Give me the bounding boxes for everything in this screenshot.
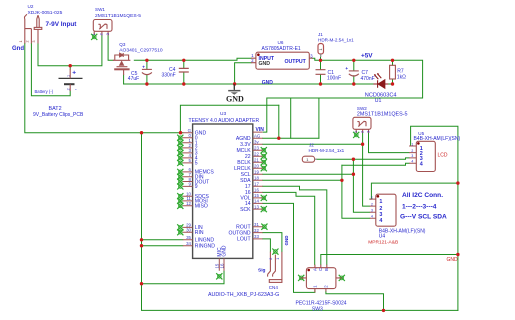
- wire AGND pin line: [263, 137, 319, 139]
- svg-text:2: 2: [269, 258, 273, 260]
- svg-text:16: 16: [219, 263, 224, 268]
- svg-text:9: 9: [195, 184, 198, 190]
- svg-text:12: 12: [186, 201, 191, 206]
- wire ground rail: [124, 83, 374, 85]
- svg-text:+: +: [345, 66, 348, 71]
- wire GND to RINGND pin 34: [142, 245, 183, 247]
- svg-text:15: 15: [254, 193, 259, 198]
- rotary encoder SW3 PEC11R: [301, 265, 342, 293]
- wire SW3 pin2 to GND rail: [326, 292, 384, 311]
- wire 3.3V to SW2 and U4 pin2: [263, 133, 370, 206]
- wire SDA to U5 pin4: [342, 163, 409, 165]
- wire U6 GND pin to ground rail: [235, 63, 251, 84]
- svg-text:1: 1: [66, 75, 70, 77]
- svg-text:1: 1: [92, 33, 96, 35]
- svg-text:GND: GND: [284, 235, 289, 246]
- capacitor C4 330nF: [179, 68, 189, 72]
- wire C1 connections: [320, 60, 322, 84]
- svg-text:7-9V Input: 7-9V Input: [46, 21, 78, 28]
- wire battery negative to jack: [31, 44, 70, 96]
- svg-text:20: 20: [254, 164, 259, 169]
- svg-text:1kΩ: 1kΩ: [397, 74, 406, 80]
- svg-text:13: 13: [254, 204, 259, 209]
- switch SW1 2MS1T1B1M1QES-5: [93, 20, 112, 36]
- svg-text:34: 34: [186, 241, 191, 246]
- svg-text:330nF: 330nF: [162, 72, 176, 78]
- wire OUTGND to CN4 sleeve: [263, 233, 282, 252]
- svg-text:GND: GND: [262, 80, 274, 86]
- svg-text:OUTPUT: OUTPUT: [285, 59, 307, 65]
- wire AGND right loop leg: [318, 98, 320, 138]
- svg-text:35: 35: [186, 235, 191, 240]
- svg-text:33: 33: [254, 234, 259, 239]
- wire U4 pin1 to GND: [370, 183, 459, 199]
- svg-text:3: 3: [371, 209, 373, 213]
- wire Q3 gate to ground: [123, 75, 125, 84]
- wire GND to LINGND pin 35: [142, 239, 183, 241]
- svg-text:2: 2: [379, 206, 382, 212]
- wire U3 pin14 to SW3 switch pin: [263, 203, 315, 292]
- svg-text:4: 4: [420, 162, 423, 168]
- connector U2 barrel jack XDJK-0051-025: [24, 14, 41, 43]
- svg-text:47uF: 47uF: [128, 76, 139, 82]
- svg-text:U3: U3: [220, 111, 226, 117]
- svg-text:3: 3: [379, 212, 382, 218]
- svg-text:1: 1: [276, 258, 280, 260]
- svg-text:B4B-XH-AM(LF)(SN): B4B-XH-AM(LF)(SN): [379, 229, 426, 235]
- svg-text:1: 1: [411, 142, 413, 146]
- svg-text:18: 18: [254, 176, 259, 181]
- wire U5 pin1 to GND right side: [411, 126, 458, 310]
- svg-text:LOUT: LOUT: [237, 237, 251, 243]
- wire GND from U3 bottom GND pin: [142, 271, 225, 284]
- svg-text:4: 4: [411, 160, 413, 164]
- wire U3 pin16 to SW3 A: [263, 192, 315, 264]
- svg-text:GND: GND: [259, 61, 271, 67]
- svg-text:OUTGND: OUTGND: [229, 230, 251, 236]
- switch SW2 2MS1T1B1M1QES-5: [353, 117, 371, 133]
- svg-text:2: 2: [100, 33, 104, 35]
- svg-text:31: 31: [254, 222, 259, 227]
- svg-text:GND: GND: [222, 245, 228, 257]
- svg-text:B: B: [324, 268, 329, 271]
- svg-text:SW1: SW1: [95, 7, 105, 12]
- svg-text:100nF: 100nF: [327, 75, 341, 81]
- wire GND from jack to U3 GND pin: [25, 44, 183, 133]
- wire SW3 C to GND: [321, 255, 458, 265]
- svg-text:1: 1: [379, 199, 382, 205]
- wire +5V rail to U3 VIN: [263, 58, 422, 132]
- svg-text:SCL: SCL: [241, 172, 251, 178]
- svg-text:Q3: Q3: [119, 42, 126, 47]
- svg-text:3: 3: [106, 33, 110, 35]
- transistor Q3 AO3401 PMOS: [113, 53, 130, 75]
- svg-text:LCD: LCD: [438, 153, 448, 159]
- wire LED cathode to R7: [385, 60, 393, 84]
- wire GND symbol stub: [233, 84, 235, 89]
- svg-text:RIN: RIN: [195, 230, 204, 236]
- connector U4 B4B-XH MPR121: [376, 194, 396, 226]
- wire AGND upper branch: [180, 105, 278, 132]
- svg-text:MISO: MISO: [195, 204, 208, 210]
- svg-text:Battery (-): Battery (-): [35, 89, 54, 94]
- wire loop leg at x290: [290, 98, 292, 138]
- wire SCL from U3 pin19 to U4 pin3: [263, 159, 370, 212]
- wire SW1 to Q3 source: [108, 36, 113, 61]
- svg-text:1: 1: [371, 195, 373, 199]
- wire U3 pin17 to SW3 B: [263, 186, 327, 264]
- U3 left pin numbers: [186, 128, 191, 246]
- LED U1 NCD0603C4: [373, 73, 388, 88]
- svg-text:G---V SCL SDA: G---V SCL SDA: [400, 214, 447, 221]
- capacitor C5 47uF electrolytic: [142, 69, 152, 74]
- wire battery positive stub: [69, 66, 71, 69]
- svg-text:9V_Battery Clips_PCB: 9V_Battery Clips_PCB: [33, 112, 84, 118]
- U4 pin numbers: [379, 199, 382, 224]
- svg-text:2: 2: [411, 149, 413, 153]
- svg-text:All I2C Conn.: All I2C Conn.: [402, 192, 443, 199]
- svg-text:19: 19: [254, 170, 259, 175]
- svg-text:GND: GND: [447, 257, 459, 263]
- wire +9V jack/battery to SW1: [38, 36, 102, 66]
- svg-text:1: 1: [354, 131, 358, 133]
- ground symbol GND: [233, 84, 235, 90]
- svg-text:U6: U6: [278, 40, 284, 45]
- svg-text:AG: AG: [254, 134, 261, 139]
- svg-text:TEENSY 4.0 AUDIO ADAPTER: TEENSY 4.0 AUDIO ADAPTER: [189, 118, 260, 124]
- regulator U6 AS7805ADTR-E1: [256, 52, 309, 69]
- wire GND vertical trunk and bottom rail: [142, 133, 458, 311]
- svg-text:3: 3: [32, 41, 36, 43]
- no-connect X marks: [91, 34, 359, 281]
- wire SW2 to U5 LCD pin2: [369, 133, 410, 153]
- svg-text:RINGND: RINGND: [195, 244, 215, 250]
- header J1 HDR-M-2.54_1x1: [318, 44, 324, 55]
- wire C5 connections: [146, 60, 148, 84]
- svg-text:AO3401_C2977510: AO3401_C2977510: [119, 47, 163, 53]
- svg-text:VIN: VIN: [256, 127, 265, 133]
- svg-text:21: 21: [254, 158, 259, 163]
- U3 right pin numbers: [254, 134, 261, 240]
- svg-text:2: 2: [360, 131, 364, 133]
- svg-text:U4: U4: [379, 234, 386, 240]
- connector U5 B4B-XH LCD: [416, 141, 435, 171]
- svg-text:AS7805ADTR-E1: AS7805ADTR-E1: [262, 46, 301, 52]
- svg-text:HDR-M-2.54_1x1: HDR-M-2.54_1x1: [309, 148, 345, 153]
- IC U3 TEENSY 4.0 AUDIO ADAPTER: [193, 124, 253, 258]
- svg-text:CN4: CN4: [269, 285, 279, 290]
- svg-text:SW2: SW2: [357, 106, 367, 111]
- wire C4 connections: [183, 60, 185, 84]
- wire Q3 drain to U6 INPUT: [134, 58, 251, 60]
- wire J1 stub: [320, 57, 322, 60]
- svg-text:4: 4: [379, 218, 382, 224]
- resistor R7 1k: [390, 65, 396, 79]
- svg-text:+: +: [72, 70, 76, 77]
- svg-text:SW3: SW3: [312, 306, 323, 312]
- svg-text:AUDIO-TH_XKB_PJ-623A3-G: AUDIO-TH_XKB_PJ-623A3-G: [208, 292, 279, 298]
- audio jack CN4 PJ-623A3: [268, 252, 282, 283]
- svg-text:GND: GND: [226, 94, 244, 103]
- wire C7 connections: [353, 60, 355, 84]
- svg-text:1: 1: [319, 49, 323, 51]
- svg-text:J2: J2: [309, 143, 314, 148]
- svg-text:A: A: [312, 268, 317, 271]
- U3 left pin names: [195, 131, 215, 250]
- battery BAT2 9V: [59, 77, 83, 79]
- capacitor C1 100nF: [316, 70, 326, 75]
- svg-text:3: 3: [366, 131, 370, 133]
- svg-text:1: 1: [19, 41, 23, 43]
- svg-text:U2: U2: [28, 4, 34, 9]
- svg-text:SCK: SCK: [240, 207, 251, 213]
- svg-text:1---2---3---4: 1---2---3---4: [402, 203, 437, 210]
- U3 bottom pin stubs: [219, 258, 224, 270]
- svg-text:5: 5: [195, 161, 198, 167]
- svg-text:Sig: Sig: [258, 268, 266, 274]
- wire SCL J2 to U5 pin3: [317, 158, 409, 159]
- U3 left pin stubs: [183, 133, 193, 246]
- svg-text:22: 22: [254, 152, 259, 157]
- capacitor C7 470nF electrolytic: [349, 70, 359, 72]
- svg-text:3v: 3v: [254, 140, 259, 145]
- svg-text:470nF: 470nF: [361, 76, 375, 82]
- svg-text:4: 4: [371, 215, 373, 219]
- svg-text:2MS1T1B1M1QES-5: 2MS1T1B1M1QES-5: [95, 13, 141, 19]
- U3 right pin names: [229, 136, 252, 243]
- svg-text:XDJK-0051-025: XDJK-0051-025: [28, 10, 63, 16]
- svg-text:2MS1T1B1M1QES-5: 2MS1T1B1M1QES-5: [357, 111, 408, 117]
- svg-text:U1: U1: [375, 98, 382, 104]
- svg-text:+5V: +5V: [361, 53, 373, 60]
- U3 right pin stubs: [253, 132, 263, 239]
- svg-text:32: 32: [254, 228, 259, 233]
- svg-text:Gnd: Gnd: [12, 46, 24, 52]
- wire SDA from U3 pin18 to U4 pin4: [263, 165, 370, 218]
- wire LOUT to CN4 tip: [263, 239, 271, 252]
- U5 pin numbers: [420, 146, 423, 168]
- svg-text:C: C: [318, 268, 323, 271]
- wire AGND branch: [278, 105, 280, 138]
- svg-text:2: 2: [371, 202, 373, 206]
- svg-text:+: +: [142, 64, 145, 69]
- svg-text:17: 17: [254, 182, 259, 187]
- svg-text:17: 17: [245, 184, 251, 190]
- svg-text:16: 16: [254, 188, 259, 193]
- svg-text:23: 23: [254, 146, 259, 151]
- svg-text:2: 2: [66, 88, 70, 90]
- U3 bottom pin names MIC GND: [217, 245, 228, 257]
- svg-text:2: 2: [25, 41, 29, 43]
- svg-text:HDR-M-2.54_1x1: HDR-M-2.54_1x1: [318, 37, 354, 42]
- svg-text:J1: J1: [318, 32, 323, 37]
- svg-text:3: 3: [411, 154, 413, 158]
- svg-text:14: 14: [254, 199, 259, 204]
- header J2 HDR-M-2.54_1x1: [302, 156, 314, 162]
- svg-text:B4B-XH-AM(LF)(SN): B4B-XH-AM(LF)(SN): [414, 136, 461, 142]
- svg-text:MPR121-A&B: MPR121-A&B: [368, 240, 398, 246]
- svg-text:BAT2: BAT2: [49, 106, 62, 112]
- svg-text:30: 30: [186, 228, 191, 233]
